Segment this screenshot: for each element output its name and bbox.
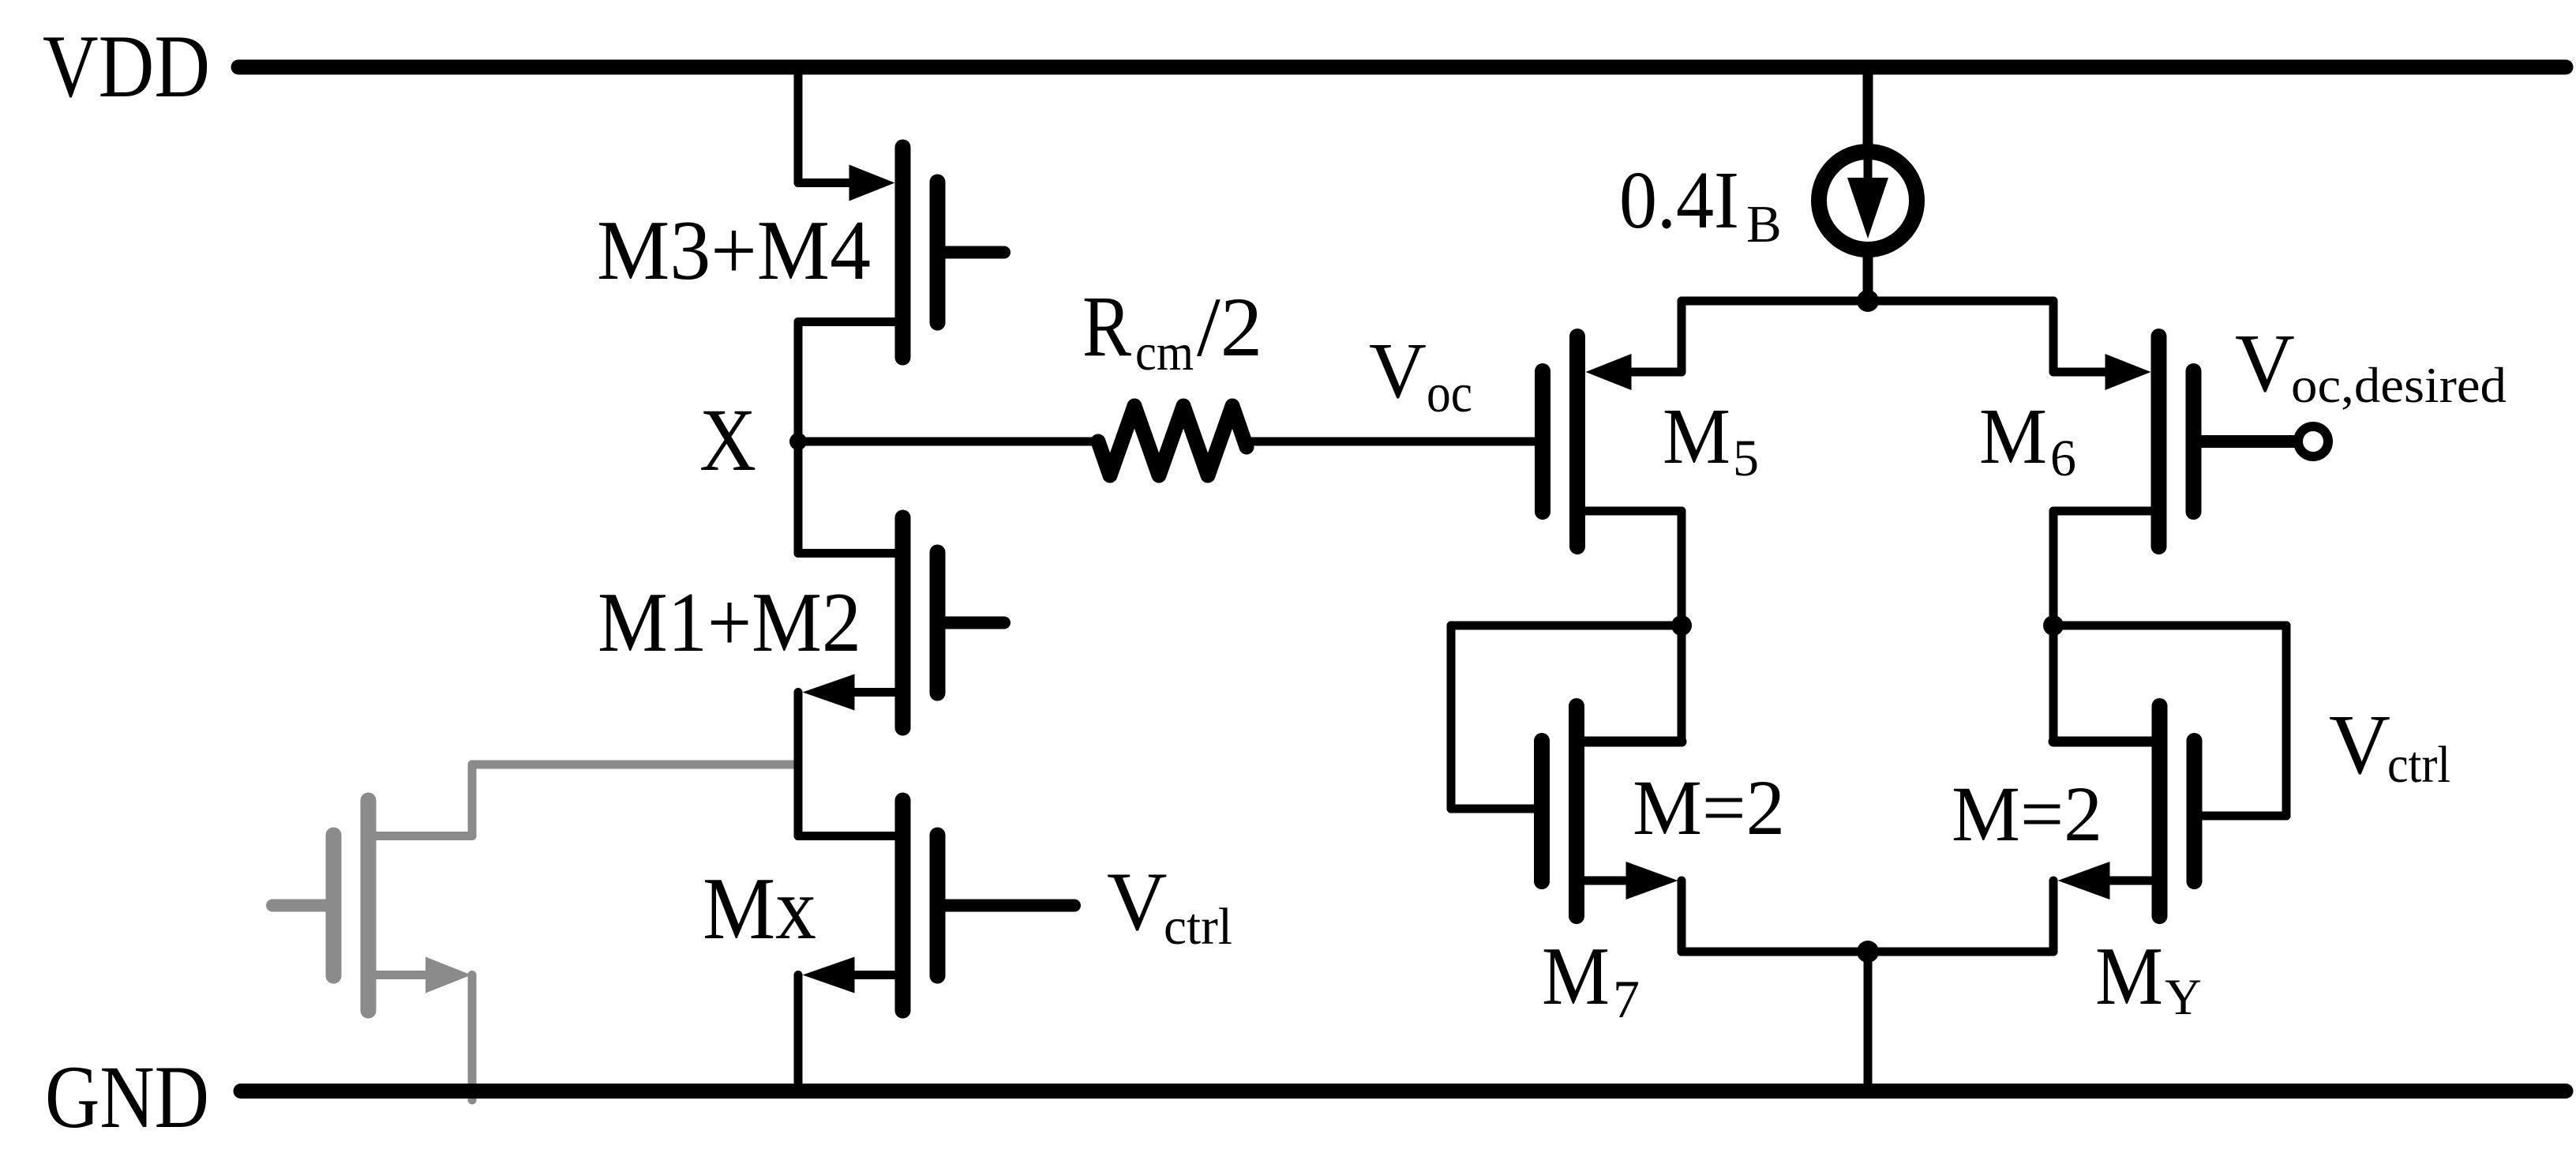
svg-text:/2: /2 (1197, 281, 1262, 374)
svg-text:M: M (1979, 392, 2047, 480)
svg-text:oc,desired: oc,desired (2291, 357, 2507, 413)
svg-text:0.4I: 0.4I (1619, 155, 1739, 246)
svg-text:ctrl: ctrl (1164, 898, 1232, 956)
svg-text:M1+M2: M1+M2 (598, 576, 861, 670)
svg-text:V: V (2329, 698, 2390, 792)
svg-text:Y: Y (2165, 969, 2202, 1026)
svg-text:5: 5 (1733, 430, 1759, 487)
svg-text:6: 6 (2050, 430, 2076, 487)
svg-text:X: X (699, 391, 756, 490)
svg-text:ctrl: ctrl (2387, 736, 2450, 794)
svg-text:M: M (2095, 930, 2163, 1022)
svg-text:M3+M4: M3+M4 (597, 204, 871, 298)
svg-text:7: 7 (1613, 969, 1640, 1029)
svg-text:V: V (1107, 855, 1168, 948)
svg-text:Mx: Mx (703, 860, 816, 958)
svg-text:M=2: M=2 (1633, 764, 1785, 851)
svg-text:M: M (1663, 392, 1730, 480)
svg-text:cm: cm (1135, 324, 1194, 381)
svg-text:oc: oc (1427, 363, 1472, 424)
svg-text:V: V (2235, 317, 2295, 409)
svg-text:V: V (1369, 326, 1427, 415)
svg-text:B: B (1746, 195, 1782, 254)
svg-text:R: R (1082, 278, 1132, 374)
svg-text:GND: GND (45, 1048, 209, 1147)
svg-text:M: M (1542, 930, 1610, 1022)
svg-text:M=2: M=2 (1952, 770, 2102, 858)
svg-text:VDD: VDD (43, 17, 210, 116)
